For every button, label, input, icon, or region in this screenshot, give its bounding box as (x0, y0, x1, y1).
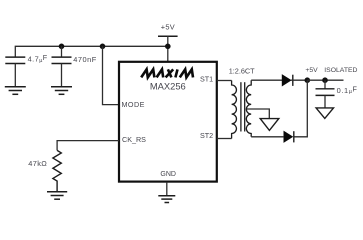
wire secondary top lead (251, 79, 282, 81)
svg-text:MODE: MODE (122, 100, 145, 109)
diode D2 (284, 131, 293, 142)
svg-text:CK_RS: CK_RS (122, 135, 146, 144)
ground C2 (51, 87, 72, 95)
wire +5V stub (167, 36, 169, 62)
svg-text:ST1: ST1 (200, 75, 213, 84)
isolated ground triangle (C3) (316, 108, 333, 119)
wire output (307, 79, 343, 81)
diode D1 (282, 75, 291, 86)
node cap tap (322, 77, 328, 83)
wire MODE (103, 46, 120, 104)
transformer T1 core (241, 82, 245, 131)
wire D1 to node (291, 79, 307, 81)
capacitor C2 plates (52, 57, 72, 63)
resistor R1 47k zigzag (53, 150, 61, 191)
ground C1 (5, 87, 26, 95)
node junction +5V (165, 44, 171, 50)
svg-text:GND: GND (160, 171, 176, 178)
capacitor C3 plates (316, 89, 335, 96)
IC U1 MAX256 box (119, 62, 217, 182)
wire C3 top lead (324, 80, 326, 89)
wire node down right side (294, 80, 308, 137)
svg-text:+5V: +5V (161, 22, 175, 31)
transformer T1 secondary winding (246, 80, 251, 137)
U1 MAXIM logo (141, 69, 193, 77)
svg-text:ST2: ST2 (200, 131, 213, 140)
wire ST1 (217, 80, 232, 82)
wire center tap (247, 109, 269, 119)
svg-text:47kΩ: 47kΩ (28, 159, 47, 168)
svg-text:1:2.6CT: 1:2.6CT (229, 67, 255, 76)
wire GND pin lead (166, 182, 168, 196)
supply +5V bar (158, 35, 178, 37)
svg-text:+5V: +5V (305, 67, 318, 74)
svg-text:0.1µF: 0.1µF (337, 85, 358, 96)
svg-text:ISOLATED: ISOLATED (324, 67, 357, 74)
ground U1 GND (158, 196, 175, 203)
node junction MODE drop (100, 44, 106, 50)
svg-text:4.7µF: 4.7µF (28, 53, 48, 64)
wire C1 bottom lead (14, 64, 16, 87)
wire secondary bottom lead (251, 136, 284, 138)
capacitor C1 plates (5, 57, 25, 63)
wire C2 top lead (61, 46, 63, 57)
svg-text:MAX256: MAX256 (150, 81, 186, 92)
transformer T1 primary winding (232, 81, 237, 139)
ground R1 (47, 192, 67, 199)
node junction above C2 (59, 44, 65, 50)
wire ST2 (217, 138, 232, 140)
wire top bus (15, 46, 168, 57)
isolated ground triangle (tap) (260, 119, 279, 131)
wire C2 bottom lead (61, 64, 63, 87)
wire C3 bottom lead (324, 95, 326, 108)
svg-text:470nF: 470nF (73, 55, 96, 64)
node +5V isolated (305, 77, 311, 83)
wire CK_RS to resistor (57, 141, 119, 151)
